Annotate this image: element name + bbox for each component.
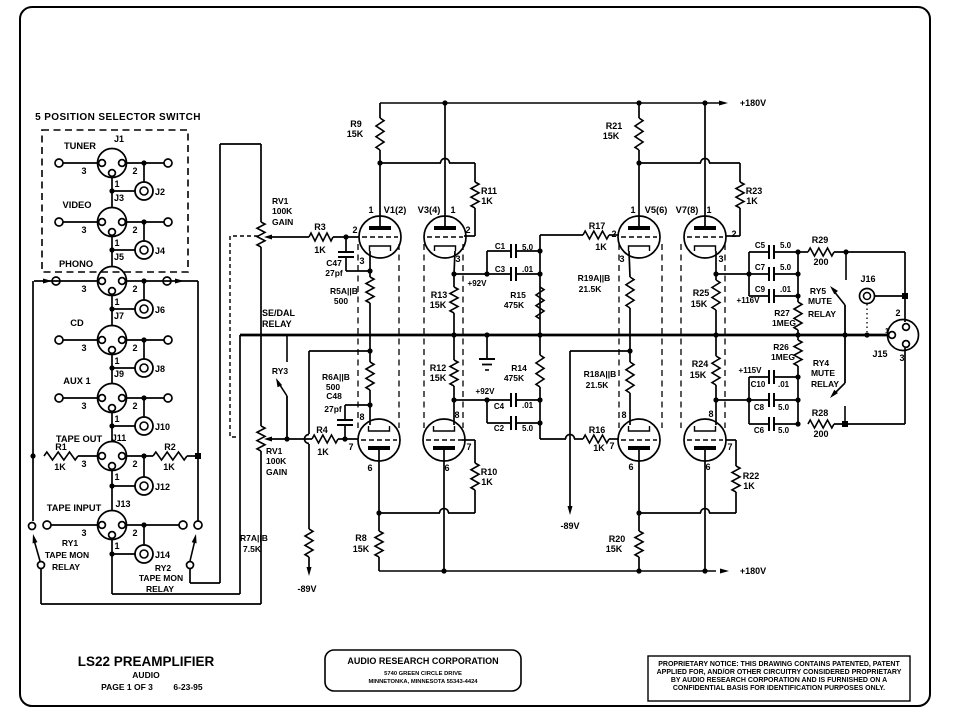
wire V3 cathode stem [454, 251, 455, 274]
relay RY5 contact [845, 252, 847, 280]
svg-text:+116V: +116V [737, 296, 761, 305]
svg-text:AUDIO RESEARCH CORPORATION: AUDIO RESEARCH CORPORATION [347, 656, 498, 666]
node bus junctions [451, 332, 456, 337]
svg-text:1MEG: 1MEG [771, 352, 795, 362]
svg-text:J13: J13 [115, 499, 130, 509]
wire jack branch J2 [143, 163, 145, 182]
svg-text:3: 3 [81, 343, 86, 353]
resistor R19A||B [626, 277, 634, 308]
wire V5 cathode stem [629, 251, 630, 277]
wire RV1 lower to bottom [260, 451, 262, 604]
wire jack branch J10 [143, 398, 145, 417]
svg-text:RELAY: RELAY [262, 319, 292, 329]
wire jack branch J14 [143, 525, 145, 545]
resistor R29 [798, 251, 808, 253]
wire cathode bus left [379, 512, 440, 514]
svg-text:J12: J12 [155, 482, 170, 492]
jack J4 [135, 241, 153, 259]
wire pin2 J7 [126, 339, 164, 341]
tube V1(2) upper half [359, 216, 401, 258]
svg-text:LS22 PREAMPLIFIER: LS22 PREAMPLIFIER [78, 654, 215, 669]
tube V3(4) upper half [424, 216, 466, 258]
svg-text:6: 6 [444, 463, 449, 473]
svg-text:1: 1 [114, 179, 119, 189]
wire V8 plate stem [704, 450, 706, 571]
wire V5 plate stem [638, 163, 640, 227]
svg-text:R16: R16 [589, 425, 606, 435]
wire pin1 chain J13 [111, 538, 113, 554]
svg-text:.01: .01 [778, 380, 790, 389]
svg-text:MINNETONKA, MINNESOTA 55343-44: MINNETONKA, MINNESOTA 55343-4424 [368, 679, 478, 685]
svg-text:R3: R3 [314, 222, 326, 232]
svg-text:3: 3 [718, 254, 723, 264]
svg-text:R4: R4 [316, 425, 328, 435]
ground symbol [484, 332, 489, 337]
resistor R24 [715, 335, 717, 356]
wire pin1 chain J1 [111, 176, 113, 191]
svg-text:15K: 15K [353, 544, 370, 554]
resistor R5A||B [369, 251, 371, 277]
wire caps left rail upper [748, 252, 750, 296]
svg-text:V1(2): V1(2) [384, 205, 407, 215]
svg-text:J15: J15 [872, 349, 887, 359]
node R1 left junction [30, 453, 35, 458]
svg-text:R7A||B: R7A||B [240, 533, 268, 543]
resistor R21 [638, 103, 640, 118]
svg-text:R15: R15 [510, 290, 526, 300]
resistor R12 [453, 335, 455, 360]
svg-text:C6: C6 [754, 426, 765, 435]
resistor R9 [379, 103, 381, 118]
tube V3(4) lower half V4 [423, 419, 465, 461]
svg-text:J11: J11 [112, 433, 127, 443]
selector switch dashed box [42, 130, 188, 272]
svg-text:R17: R17 [589, 221, 606, 231]
dashed relay column V5 V6 [618, 244, 620, 428]
svg-text:C7: C7 [755, 263, 766, 272]
resistor R23 [739, 163, 741, 182]
svg-text:1K: 1K [54, 462, 66, 472]
svg-text:1: 1 [630, 205, 635, 215]
svg-text:RELAY: RELAY [808, 309, 836, 319]
node V8 pin8 [713, 397, 718, 402]
svg-text:R2: R2 [164, 442, 176, 452]
resistor R25 [715, 274, 717, 280]
wire phono right rail [197, 281, 199, 521]
wire pin2 J3 [126, 221, 164, 223]
capacitor C7 [768, 267, 770, 281]
svg-text:7.5K: 7.5K [243, 544, 262, 554]
svg-text:+92V: +92V [476, 387, 496, 396]
svg-text:7: 7 [348, 442, 353, 452]
svg-text:RY2: RY2 [155, 563, 171, 573]
svg-text:8: 8 [359, 412, 364, 422]
svg-text:15K: 15K [603, 131, 620, 141]
svg-text:R1: R1 [55, 442, 67, 452]
jack J2 [135, 182, 153, 200]
svg-text:2: 2 [132, 166, 137, 176]
svg-text:1: 1 [114, 472, 119, 482]
connector J9 AUX 1 [98, 384, 127, 413]
connector J1 TUNER [98, 149, 127, 178]
svg-text:27pf: 27pf [324, 404, 342, 414]
relay RY3 contact stub [286, 335, 288, 362]
svg-text:+180V: +180V [740, 566, 766, 576]
wire phono left rail [32, 281, 34, 521]
resistor R4 [312, 435, 338, 443]
svg-text:2: 2 [132, 528, 137, 538]
svg-text:R18A||B: R18A||B [584, 369, 617, 379]
svg-text:R9: R9 [350, 119, 362, 129]
svg-text:100K: 100K [272, 206, 293, 216]
wire caps right rail lower [797, 377, 799, 424]
svg-text:RV1: RV1 [266, 446, 283, 456]
wire R5 R6 junction to -89V [309, 350, 370, 352]
capacitor C9 [749, 295, 769, 297]
svg-text:.01: .01 [522, 265, 534, 274]
wire tape loop rail [219, 144, 221, 583]
svg-text:1: 1 [885, 328, 889, 335]
svg-text:C47: C47 [326, 258, 342, 268]
node R21 bottom [636, 160, 641, 165]
wire pin1 chain J9 [111, 411, 113, 426]
wire pin3 J5 [34, 280, 98, 282]
svg-text:1: 1 [114, 297, 119, 307]
connector J5 PHONO [98, 267, 127, 296]
svg-text:J2: J2 [155, 187, 165, 197]
jack J14 [135, 545, 153, 563]
svg-text:6-23-95: 6-23-95 [173, 682, 203, 692]
svg-text:.01: .01 [522, 401, 534, 410]
svg-text:1K: 1K [481, 477, 493, 487]
svg-text:8: 8 [454, 410, 459, 420]
box proprietary notice [648, 656, 910, 701]
svg-text:1K: 1K [593, 443, 605, 453]
node V7 pin3 [713, 271, 718, 276]
svg-text:R5A||B: R5A||B [330, 286, 358, 296]
svg-text:2: 2 [132, 401, 137, 411]
svg-text:CD: CD [70, 318, 84, 328]
svg-text:475K: 475K [504, 373, 525, 383]
wire R16 row [540, 438, 566, 440]
svg-text:27pf: 27pf [325, 268, 343, 278]
svg-text:PAGE 1 OF 3: PAGE 1 OF 3 [101, 682, 153, 692]
svg-text:21.5K: 21.5K [586, 380, 610, 390]
connector J7 CD [98, 326, 127, 355]
capacitor C4 [454, 399, 511, 401]
svg-text:PROPRIETARY NOTICE: THIS DRA: PROPRIETARY NOTICE: THIS DRAWING CONTAIN… [658, 661, 900, 668]
svg-text:AUDIO: AUDIO [132, 670, 160, 680]
svg-text:-89V: -89V [560, 521, 579, 531]
wire plate row left [380, 162, 441, 164]
relay RY4 arm [844, 335, 846, 383]
svg-text:TAPE MON: TAPE MON [139, 573, 183, 583]
svg-text:1: 1 [114, 414, 119, 424]
resistor R18A||B [626, 362, 634, 393]
wire pin2 J13 [126, 524, 179, 526]
svg-text:21.5K: 21.5K [579, 284, 603, 294]
resistor R1 [44, 452, 78, 460]
wire V6 plate stem [638, 450, 640, 513]
wire caps left rail lower [748, 377, 750, 424]
tube V5(6) upper half [618, 216, 660, 258]
wire pin2 J9 [126, 397, 164, 399]
wire cap column upper [539, 235, 541, 335]
node bottom bus junctions [441, 568, 446, 573]
dotted J16 ground link [866, 304, 868, 332]
svg-text:3: 3 [359, 256, 364, 266]
svg-text:1K: 1K [163, 462, 175, 472]
svg-text:3: 3 [81, 225, 86, 235]
svg-text:RY5: RY5 [810, 286, 826, 296]
svg-text:6: 6 [705, 462, 710, 472]
svg-text:R23: R23 [746, 186, 763, 196]
svg-text:J5: J5 [114, 252, 124, 262]
jack J12 [135, 477, 153, 495]
svg-text:J7: J7 [114, 311, 124, 321]
svg-text:R14: R14 [511, 363, 527, 373]
svg-text:+180V: +180V [740, 98, 766, 108]
wire V7 cathode stem [715, 251, 717, 274]
svg-text:R6A||B: R6A||B [322, 372, 350, 382]
dashed relay control line [230, 236, 258, 437]
relay RY1 contacts [29, 523, 36, 530]
svg-text:2: 2 [465, 225, 470, 235]
svg-text:475K: 475K [504, 300, 525, 310]
wire pin1 chain J5 [111, 294, 113, 309]
svg-text:5 POSITION SELECTOR SWITCH: 5 POSITION SELECTOR SWITCH [35, 112, 201, 123]
svg-text:6: 6 [367, 463, 372, 473]
svg-text:200: 200 [813, 257, 828, 267]
svg-text:C9: C9 [755, 285, 766, 294]
svg-text:C1: C1 [495, 242, 506, 251]
wire RY2 to rail [189, 569, 191, 583]
svg-text:+92V: +92V [468, 279, 488, 288]
svg-text:C10: C10 [751, 380, 766, 389]
svg-text:J10: J10 [155, 422, 170, 432]
wire jack branch J8 [143, 340, 145, 359]
resistor R17 [583, 231, 609, 239]
svg-text:R12: R12 [430, 363, 447, 373]
wire V7 pin3 to caps [716, 273, 769, 275]
svg-text:TAPE INPUT: TAPE INPUT [47, 503, 102, 513]
svg-text:3: 3 [619, 254, 624, 264]
svg-text:R19A||B: R19A||B [578, 273, 611, 283]
jack J16 [860, 289, 875, 304]
node top bus junctions [442, 100, 447, 105]
wire V8 cathode stem [715, 400, 717, 425]
capacitor C47 [345, 237, 347, 252]
resistor R11 [474, 163, 476, 182]
tube V7(8) upper half [684, 216, 726, 258]
wire pin3 J1 [63, 162, 98, 164]
wire plate row right [639, 162, 701, 164]
svg-text:R22: R22 [743, 471, 760, 481]
svg-text:J1: J1 [114, 134, 124, 144]
svg-text:R10: R10 [481, 467, 498, 477]
svg-text:R27: R27 [774, 308, 790, 318]
svg-text:3: 3 [81, 459, 86, 469]
svg-text:7: 7 [466, 442, 471, 452]
svg-text:J3: J3 [114, 193, 124, 203]
dashed relay column V3 V4 [423, 244, 425, 428]
svg-text:3: 3 [81, 528, 86, 538]
wire pin1 chain J11 [111, 469, 113, 486]
node R9 bottom [377, 160, 382, 165]
jack J10 [135, 417, 153, 435]
svg-text:15K: 15K [690, 370, 707, 380]
resistor R6A||B [366, 362, 374, 390]
node R2 right junction [187, 455, 198, 457]
svg-text:500: 500 [326, 382, 340, 392]
svg-text:3: 3 [899, 353, 904, 363]
svg-text:7: 7 [727, 442, 732, 452]
wire jack branch J4 [143, 222, 145, 241]
node C47 lower junction [367, 268, 372, 273]
wire V7 plate stem [704, 103, 706, 227]
wire pin3 J11 [78, 455, 98, 457]
capacitor C8 [716, 399, 769, 401]
relay RY4 contact [844, 406, 846, 424]
svg-text:TAPE MON: TAPE MON [45, 550, 89, 560]
svg-text:J8: J8 [155, 364, 165, 374]
resistor R10 [474, 490, 476, 513]
resistor R26 [797, 335, 799, 340]
svg-text:J4: J4 [155, 246, 165, 256]
resistor R3 [309, 233, 333, 241]
wire pin2 J1 [126, 162, 164, 164]
svg-text:7: 7 [609, 441, 614, 451]
wire +180V bottom bus [379, 570, 716, 572]
svg-text:R28: R28 [812, 408, 829, 418]
relay RY2 arm [190, 540, 195, 561]
resistor R14 [539, 335, 541, 355]
svg-text:RELAY: RELAY [146, 584, 174, 594]
svg-text:15K: 15K [347, 129, 364, 139]
power +180V bottom [720, 569, 729, 574]
svg-text:.01: .01 [780, 285, 792, 294]
wire V3 plate stem [444, 103, 446, 227]
svg-text:R8: R8 [355, 533, 367, 543]
svg-text:V3(4): V3(4) [418, 205, 441, 215]
wire R17 row [540, 234, 583, 236]
svg-text:3: 3 [81, 401, 86, 411]
svg-text:R26: R26 [773, 342, 789, 352]
svg-text:+115V: +115V [739, 366, 763, 375]
dashed relay column V7 V8 [680, 244, 682, 428]
connector J13 TAPE INPUT [98, 511, 127, 540]
svg-text:1: 1 [706, 205, 711, 215]
svg-text:R29: R29 [812, 235, 829, 245]
connector J3 VIDEO [98, 208, 127, 237]
svg-text:MUTE: MUTE [808, 296, 832, 306]
svg-text:1: 1 [114, 541, 119, 551]
svg-text:C2: C2 [494, 424, 505, 433]
wire pin2 J11 [126, 455, 153, 457]
node R29 junction [843, 249, 848, 254]
node right caps junctions upper [746, 271, 751, 276]
svg-text:R25: R25 [693, 288, 710, 298]
svg-text:5.0: 5.0 [778, 403, 790, 412]
resistor R13 [453, 274, 455, 287]
svg-text:AUX 1: AUX 1 [63, 376, 90, 386]
svg-text:1K: 1K [746, 196, 758, 206]
dashed relay column V1 V2 [357, 244, 359, 428]
svg-text:2: 2 [132, 459, 137, 469]
svg-text:3: 3 [81, 166, 86, 176]
node RY3 junction [284, 436, 289, 441]
tube V5(6) lower half V6 [618, 419, 660, 461]
svg-text:1MEG: 1MEG [772, 318, 796, 328]
resistor R28 [808, 420, 834, 428]
node C1 C3 junctions [484, 271, 489, 276]
svg-text:2: 2 [132, 225, 137, 235]
svg-text:15K: 15K [606, 544, 623, 554]
svg-text:R13: R13 [431, 290, 448, 300]
svg-text:RV1: RV1 [272, 196, 289, 206]
svg-text:2: 2 [352, 225, 357, 235]
svg-text:J6: J6 [155, 305, 165, 315]
svg-text:RY4: RY4 [813, 358, 829, 368]
svg-text:V5(6): V5(6) [645, 205, 668, 215]
wire pin3 J9 [63, 397, 98, 399]
wire V1 cathode stem [369, 250, 371, 252]
svg-text:200: 200 [813, 429, 828, 439]
wire pin2 J5 [126, 280, 198, 282]
svg-text:RELAY: RELAY [52, 562, 80, 572]
wire -89V left drop [308, 351, 310, 434]
wire selector output to bus [112, 593, 240, 595]
node V6 plate [636, 510, 641, 515]
resistor R8 [378, 513, 380, 531]
wire pin3 J7 [63, 339, 98, 341]
svg-text:PHONO: PHONO [59, 259, 93, 269]
svg-text:GAIN: GAIN [266, 467, 287, 477]
connector J15 [888, 320, 919, 351]
svg-text:TUNER: TUNER [64, 141, 96, 151]
svg-text:5.0: 5.0 [522, 424, 534, 433]
node bus R15 [537, 332, 542, 337]
relay RY5 arm [844, 305, 846, 335]
jack J8 [135, 359, 153, 377]
relay RY1 arm [34, 540, 40, 561]
svg-text:C3: C3 [495, 265, 506, 274]
wire +180V top bus [380, 102, 723, 104]
wire V1 plate stem [379, 163, 381, 227]
svg-text:6: 6 [628, 462, 633, 472]
box AUDIO RESEARCH CORPORATION [325, 650, 521, 691]
node C48 junctions [342, 436, 347, 441]
svg-text:3: 3 [455, 254, 460, 264]
wire V2 plate stem [378, 450, 380, 513]
capacitor C6 [749, 423, 769, 425]
jack J6 [135, 300, 153, 318]
svg-text:R21: R21 [606, 121, 623, 131]
node V3 pin3 [451, 271, 456, 276]
svg-text:1: 1 [114, 356, 119, 366]
svg-text:RY1: RY1 [62, 538, 78, 548]
svg-text:J9: J9 [114, 369, 124, 379]
wire caps right rail upper [797, 252, 799, 302]
svg-text:500: 500 [334, 296, 348, 306]
wire -89V mid drop [570, 350, 630, 352]
wire jack branch J12 [143, 456, 145, 477]
power -89V left [308, 557, 310, 570]
wire V4 cathode stem [453, 400, 455, 425]
resistor R16 [583, 435, 609, 443]
node V2 plate [376, 510, 381, 515]
svg-text:J16: J16 [860, 274, 875, 284]
